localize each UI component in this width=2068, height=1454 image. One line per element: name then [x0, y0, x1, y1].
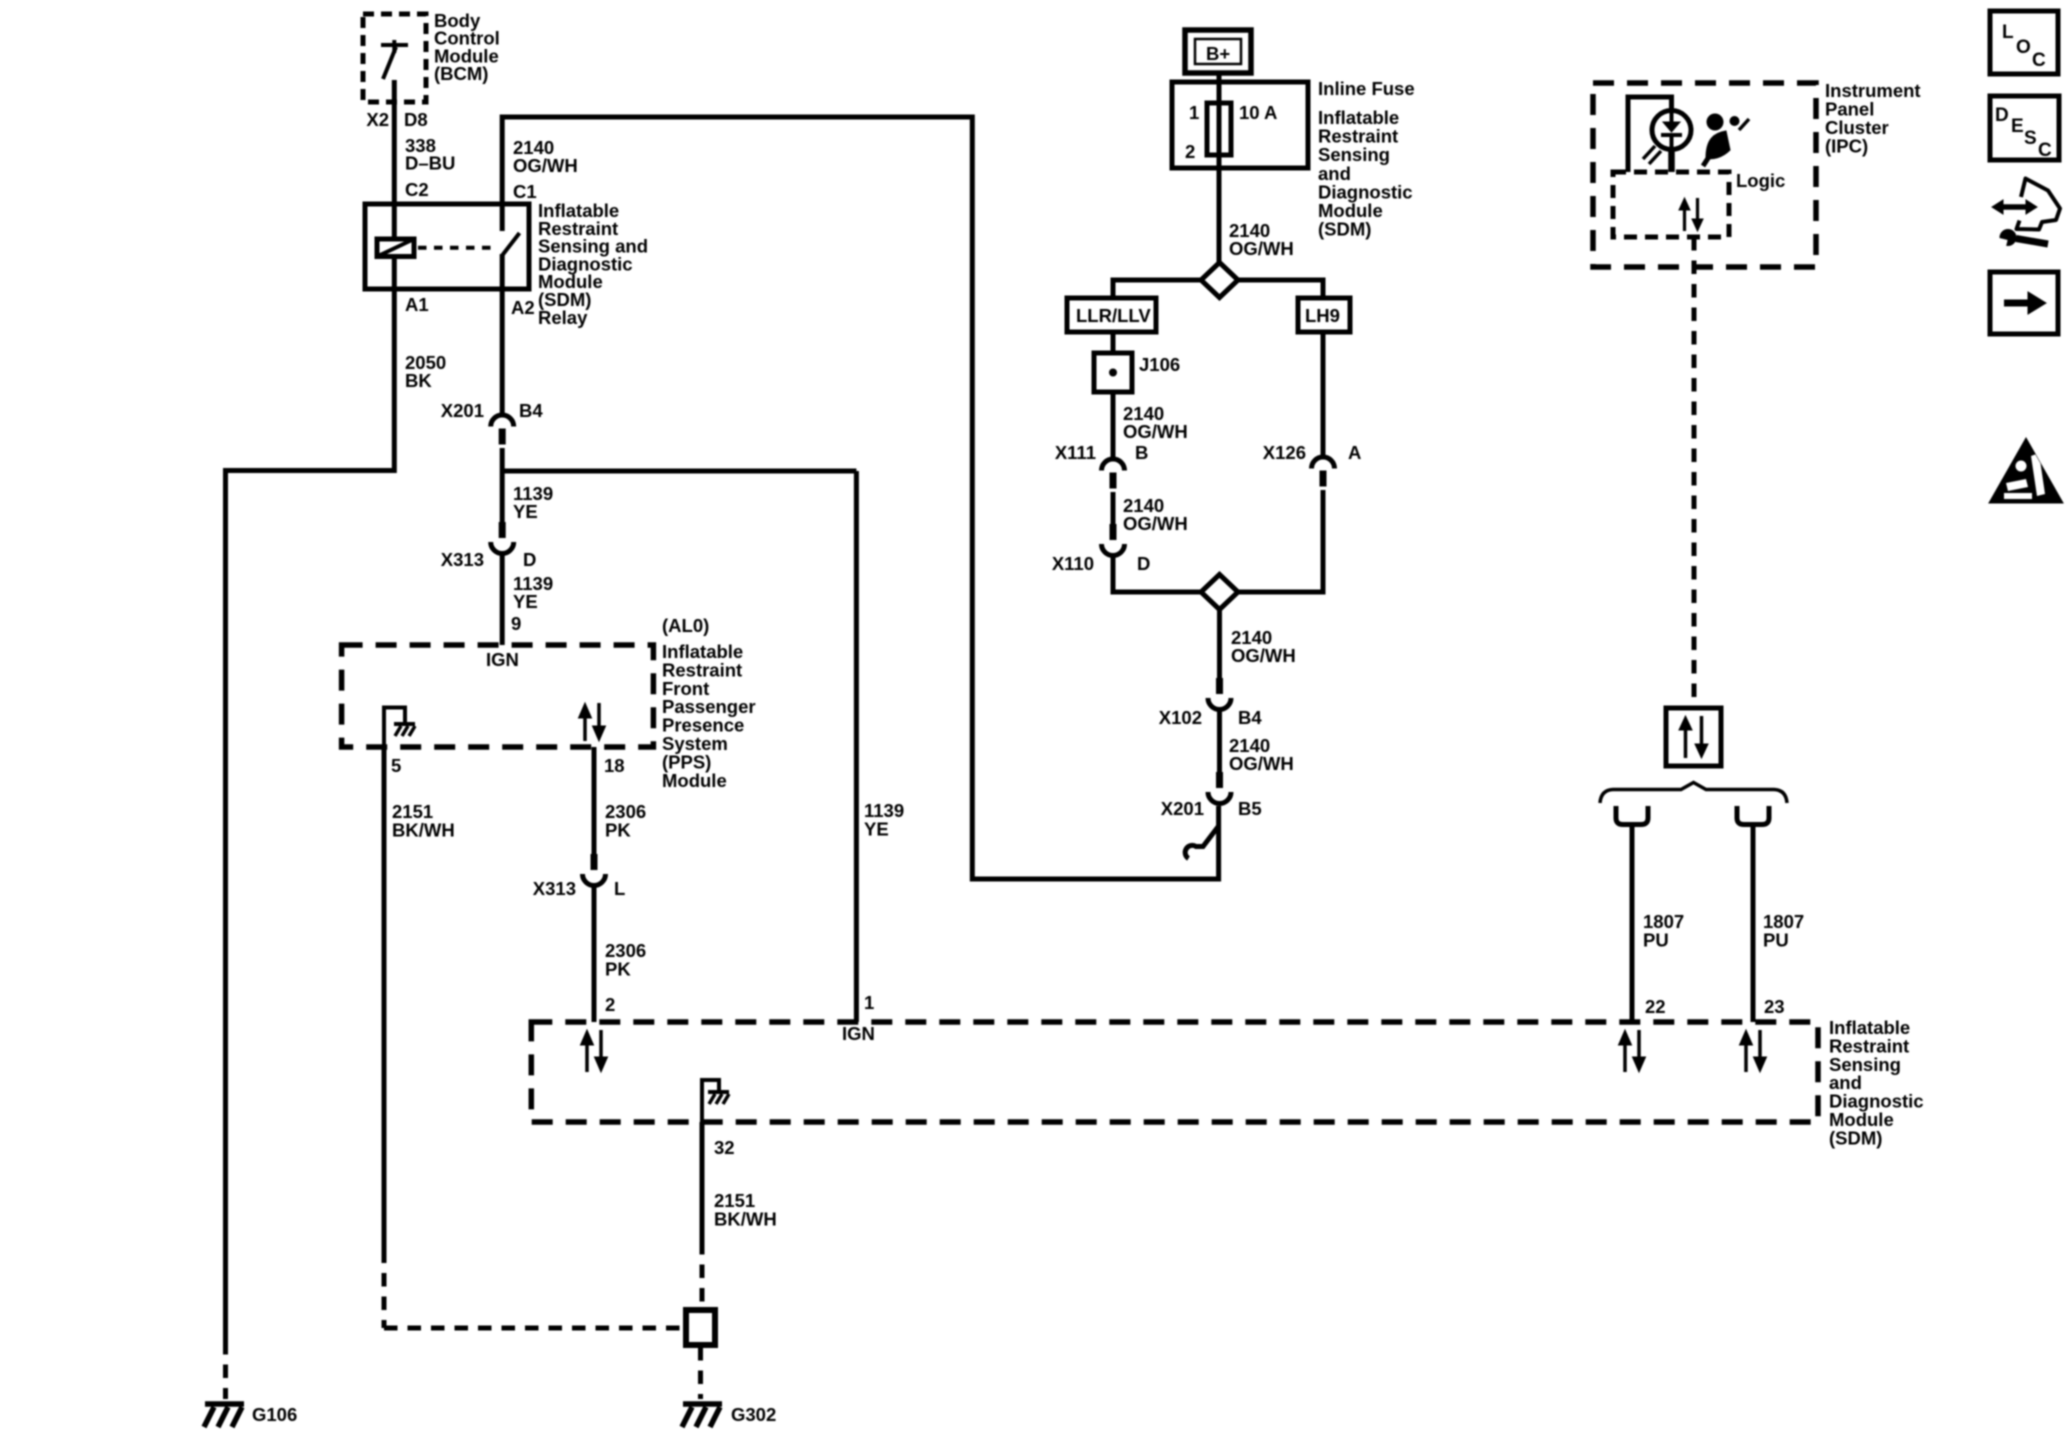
- svg-text:X102: X102: [1159, 707, 1202, 728]
- svg-text:B: B: [1135, 442, 1148, 463]
- svg-text:BK/WH: BK/WH: [392, 819, 455, 840]
- svg-text:D: D: [1137, 553, 1150, 574]
- svg-text:A2: A2: [511, 297, 535, 318]
- svg-text:B4: B4: [519, 400, 543, 421]
- svg-text:22: 22: [1645, 996, 1666, 1017]
- svg-text:LLR/LLV: LLR/LLV: [1076, 305, 1151, 326]
- svg-text:A: A: [1348, 442, 1361, 463]
- svg-text:1: 1: [1189, 102, 1199, 123]
- svg-text:YE: YE: [513, 591, 538, 612]
- svg-text:(IPC): (IPC): [1825, 136, 1868, 157]
- svg-text:D: D: [1995, 105, 2009, 126]
- svg-text:X111: X111: [1055, 442, 1096, 463]
- svg-text:2: 2: [605, 994, 615, 1015]
- svg-text:PK: PK: [605, 819, 631, 840]
- svg-text:G302: G302: [731, 1404, 776, 1425]
- svg-text:X110: X110: [1052, 553, 1094, 574]
- svg-text:C2: C2: [405, 179, 429, 200]
- svg-text:YE: YE: [864, 818, 889, 839]
- svg-text:D–BU: D–BU: [405, 153, 455, 174]
- svg-text:LH9: LH9: [1305, 305, 1340, 326]
- svg-text:PK: PK: [605, 958, 631, 979]
- svg-text:IGN: IGN: [486, 649, 519, 670]
- svg-text:18: 18: [604, 755, 625, 776]
- svg-text:X2: X2: [366, 109, 389, 130]
- svg-text:A1: A1: [405, 294, 429, 315]
- svg-text:PU: PU: [1763, 929, 1789, 950]
- svg-text:B4: B4: [1238, 707, 1262, 728]
- svg-text:L: L: [614, 878, 625, 899]
- svg-text:C: C: [2032, 50, 2046, 71]
- svg-text:PU: PU: [1643, 929, 1669, 950]
- svg-text:5: 5: [391, 755, 401, 776]
- svg-text:C1: C1: [513, 181, 537, 202]
- svg-text:2: 2: [1185, 141, 1195, 162]
- svg-text:(SDM): (SDM): [1318, 219, 1371, 240]
- svg-text:1: 1: [864, 992, 874, 1013]
- svg-text:B+: B+: [1206, 43, 1230, 64]
- svg-text:9: 9: [511, 613, 521, 634]
- svg-text:OG/WH: OG/WH: [1123, 421, 1188, 442]
- svg-text:(AL0): (AL0): [662, 615, 709, 636]
- svg-text:OG/WH: OG/WH: [1229, 238, 1294, 259]
- svg-text:O: O: [2016, 37, 2031, 58]
- svg-text:32: 32: [714, 1137, 735, 1158]
- svg-text:X126: X126: [1263, 442, 1306, 463]
- svg-text:C: C: [2038, 140, 2052, 161]
- svg-text:OG/WH: OG/WH: [1231, 645, 1296, 666]
- svg-text:BK/WH: BK/WH: [714, 1208, 777, 1229]
- svg-text:X201: X201: [1161, 798, 1204, 819]
- svg-text:B5: B5: [1238, 798, 1262, 819]
- svg-text:Module: Module: [662, 770, 727, 791]
- svg-text:BK: BK: [405, 370, 432, 391]
- svg-text:J106: J106: [1139, 354, 1180, 375]
- svg-text:OG/WH: OG/WH: [1229, 753, 1294, 774]
- svg-text:X313: X313: [533, 878, 576, 899]
- svg-text:Inline Fuse: Inline Fuse: [1318, 78, 1415, 99]
- svg-text:10 A: 10 A: [1239, 102, 1277, 123]
- svg-text:D: D: [523, 549, 536, 570]
- svg-text:IGN: IGN: [842, 1023, 875, 1044]
- svg-text:YE: YE: [513, 501, 538, 522]
- svg-text:X201: X201: [441, 400, 484, 421]
- svg-text:Relay: Relay: [538, 307, 588, 328]
- svg-text:23: 23: [1764, 996, 1785, 1017]
- svg-text:OG/WH: OG/WH: [513, 155, 578, 176]
- svg-text:D8: D8: [404, 109, 428, 130]
- svg-text:X313: X313: [441, 549, 484, 570]
- svg-text:Logic: Logic: [1736, 170, 1785, 191]
- svg-text:(BCM): (BCM): [434, 63, 488, 84]
- svg-text:E: E: [2011, 116, 2024, 137]
- svg-text:L: L: [2002, 22, 2014, 43]
- svg-text:OG/WH: OG/WH: [1123, 513, 1188, 534]
- svg-text:(SDM): (SDM): [1829, 1127, 1882, 1148]
- svg-text:S: S: [2024, 128, 2037, 149]
- svg-text:G106: G106: [252, 1404, 297, 1425]
